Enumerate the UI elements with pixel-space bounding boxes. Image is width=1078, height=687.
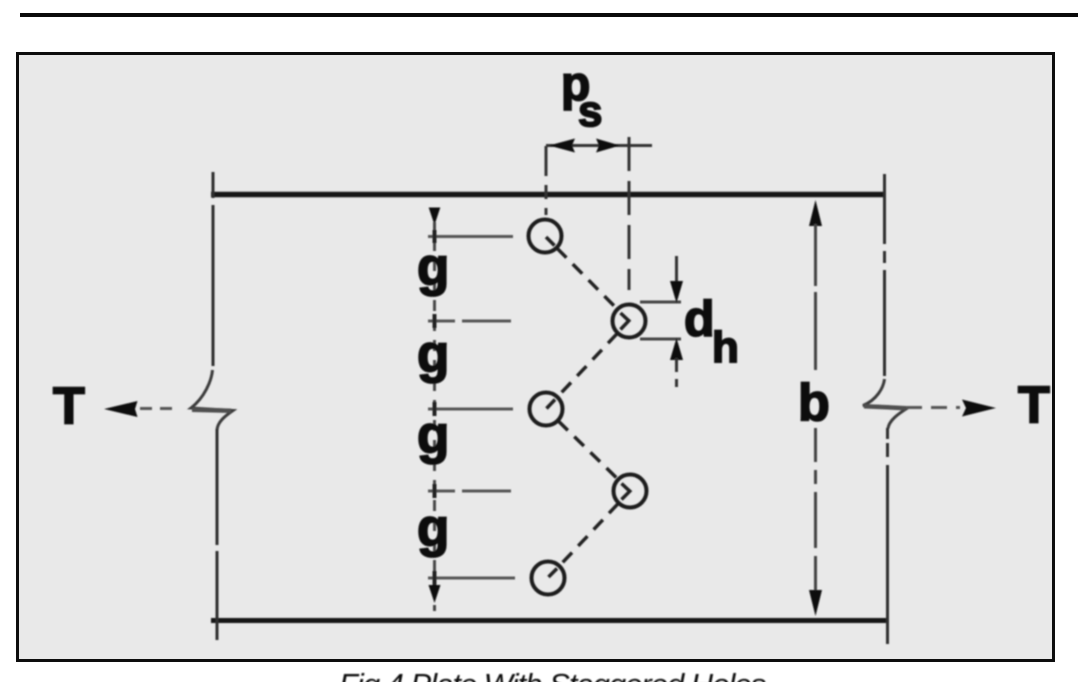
g tick row 3 [428, 408, 513, 411]
svg-text:d: d [684, 291, 715, 347]
b dimension line lower [814, 428, 817, 594]
hole H1 [529, 220, 562, 253]
svg-text:g: g [417, 238, 449, 297]
g tick row 1 [428, 235, 513, 238]
svg-text:b: b [798, 374, 830, 432]
hole H2 centre wedge [621, 313, 629, 330]
g dimension line (dashed) [433, 240, 436, 578]
plate right edge (lower) [886, 428, 889, 644]
svg-text:s: s [578, 87, 602, 136]
T left dashed shaft [140, 407, 177, 410]
stagger line H2-H3 [558, 333, 618, 396]
T right dashed shaft [906, 406, 960, 409]
svg-text:g: g [417, 406, 449, 465]
ps left arrow [549, 139, 575, 153]
b dimension top arrow [809, 200, 822, 226]
plate right edge break symbol [863, 379, 908, 429]
hole H3 [530, 393, 563, 426]
tick crossing knot row 1 [433, 230, 437, 243]
plate left edge (lower) [216, 429, 219, 640]
hole H4 centre wedge [622, 484, 630, 500]
hole H3 centre mark [547, 400, 556, 409]
plate right edge (upper) [883, 174, 886, 376]
svg-text:Fig 4 Plate With Staggered Hol: Fig 4 Plate With Staggered Holes [339, 667, 766, 682]
g dimension line bottom arrow [433, 578, 436, 588]
plate bottom edge [211, 618, 888, 623]
tick crossing knot row 5 [433, 571, 437, 585]
T left arrowhead [104, 401, 138, 417]
stagger line H3-H4 [558, 421, 618, 479]
g dimension line top arrow [429, 208, 441, 226]
top rule bar [20, 13, 1078, 17]
stagger line H4-H5 [560, 503, 619, 565]
plate left edge break symbol [191, 370, 233, 430]
T right arrowhead [962, 400, 996, 417]
stagger line H1-H2 [557, 248, 617, 309]
svg-text:T: T [53, 378, 85, 436]
dh top arrow [675, 256, 678, 283]
tick crossing knot row 4 [433, 484, 437, 498]
hole H4 [614, 475, 647, 508]
g tick row 2 [428, 320, 511, 323]
ps left extension line [545, 146, 548, 215]
svg-text:g: g [417, 499, 449, 558]
hole H2 [613, 305, 646, 338]
plate top edge [211, 192, 884, 198]
dh top edge line [640, 301, 681, 304]
svg-text:h: h [712, 323, 739, 372]
hole H5 centre mark [549, 569, 558, 578]
g tick row 4 [428, 490, 511, 493]
hole H5 [532, 562, 565, 595]
tick crossing knot row 3 [433, 402, 437, 416]
ps right extension line [628, 137, 631, 290]
tick crossing knot row 2 [433, 314, 437, 328]
dh bottom arrow [670, 338, 683, 360]
dh bottom edge line [640, 338, 681, 341]
g tick row 5 [428, 577, 515, 580]
ps dimension line [546, 144, 652, 147]
svg-text:T: T [1018, 377, 1050, 435]
b dimension line upper [814, 224, 817, 370]
svg-text:g: g [417, 325, 449, 384]
b dimension bottom arrow [809, 590, 822, 616]
ps right arrow [596, 139, 620, 153]
hole H1 centre mark [546, 237, 555, 246]
plate left edge (upper) [212, 172, 215, 366]
